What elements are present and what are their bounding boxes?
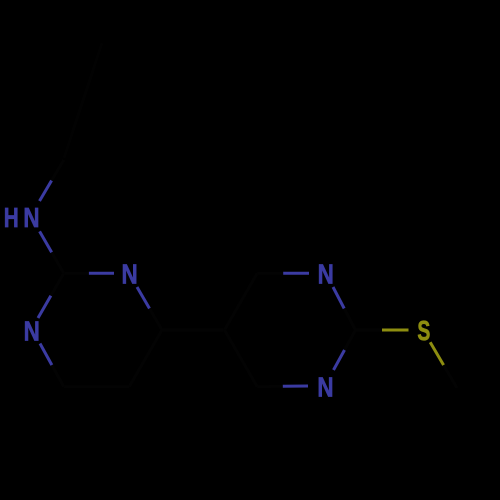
wire bond N3-C2 nitrogen half bbox=[38, 296, 51, 318]
wire bond C2'-S sulfur half bbox=[382, 329, 409, 332]
svg-text:N: N bbox=[317, 372, 333, 403]
wire bond C2'-N3' nitrogen half bbox=[334, 350, 345, 370]
wire bond C4'-C5' bbox=[225, 330, 258, 387]
wire bond C2-N1 nitrogen half bbox=[89, 272, 114, 275]
wire bond NH-C2 nitrogen half bbox=[40, 231, 52, 252]
wire bond C6'-N1' nitrogen half bbox=[283, 272, 309, 275]
wire bond N1-C6 carbon half bbox=[150, 309, 163, 331]
wire faint chain line top bbox=[64, 43, 102, 158]
wire bond C2'-S carbon half bbox=[356, 329, 383, 332]
wire bond N3-C4 carbon half bbox=[52, 365, 64, 387]
wire bond NH-C2 carbon half bbox=[52, 252, 64, 273]
wire bond C2-N1 carbon half bbox=[64, 272, 89, 275]
svg-text:N: N bbox=[122, 259, 138, 290]
wire bond S-CH3 sulfur half bbox=[430, 342, 443, 365]
svg-text:H: H bbox=[4, 203, 19, 233]
wire bond C2'-N3' carbon half bbox=[345, 330, 356, 350]
wire bond NH-CH3 nitrogen half bbox=[40, 181, 52, 202]
wire bond NH-CH3 carbon half bbox=[52, 160, 64, 181]
wire bond C5'-C6' bbox=[225, 273, 258, 330]
wire bond N1'-C2' nitrogen half bbox=[333, 287, 344, 309]
svg-text:S: S bbox=[417, 317, 430, 347]
wire bond N1'-C2' carbon half bbox=[344, 309, 355, 331]
wire bond C6'-N1' carbon half bbox=[257, 272, 283, 275]
wire bond S-CH3 carbon half bbox=[444, 365, 457, 388]
wire bond C5-C4 bbox=[64, 385, 129, 388]
wire bond N3'-C4' carbon half bbox=[257, 385, 283, 388]
wire bond N3-C4 nitrogen half bbox=[40, 344, 52, 366]
wire bond C6-C5' inter-ring bbox=[162, 329, 225, 332]
svg-text:N: N bbox=[318, 259, 334, 290]
wire bond N3'-C4' nitrogen half bbox=[283, 385, 308, 388]
wire bond N1-C6 nitrogen half bbox=[137, 287, 150, 309]
wire bond C6-C5 bbox=[129, 330, 162, 387]
svg-text:N: N bbox=[24, 316, 40, 347]
wire bond N3-C2 carbon half bbox=[51, 273, 64, 295]
svg-text:N: N bbox=[23, 203, 39, 234]
